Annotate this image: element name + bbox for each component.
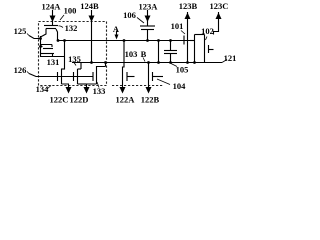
svg-text:122A: 122A: [116, 95, 136, 105]
leader 104: [157, 79, 170, 85]
svg-text:135: 135: [68, 54, 81, 64]
svg-text:123C: 123C: [210, 1, 229, 11]
transistor 131 (mid left, dual gate): [41, 45, 52, 48]
leader 135: [74, 63, 76, 66]
svg-text:126: 126: [14, 65, 27, 75]
leader 102: [206, 37, 208, 41]
svg-text:102: 102: [201, 26, 214, 36]
leader 105: [171, 64, 177, 67]
svg-text:101: 101: [171, 21, 184, 31]
node label A with arrow: [116, 31, 118, 37]
svg-text:105: 105: [176, 65, 189, 75]
svg-text:123A: 123A: [139, 2, 159, 12]
transistor 132 (top of left block): [44, 25, 58, 27]
leader 100: [60, 15, 64, 20]
node dot rail A / wire to B rail: [157, 39, 160, 42]
node A rail: [58, 40, 195, 42]
leader 132: [59, 26, 64, 28]
node dot 104 drain on B rail: [147, 61, 150, 64]
transistor 104: [148, 63, 150, 85]
terminal 122B arrow: [146, 87, 152, 94]
terminal 123B arrow (output, head up): [187, 12, 189, 63]
svg-text:133: 133: [93, 86, 106, 96]
terminal 124B arrow: [91, 10, 93, 63]
leader 125 tail: [27, 34, 29, 36]
node dot 124B on B rail: [90, 61, 93, 64]
leader B: [143, 58, 145, 62]
leader 134: [47, 86, 51, 90]
svg-text:122B: 122B: [141, 95, 160, 105]
node dot rail A / backgate branch: [63, 39, 66, 42]
transistor 106 (element under 123A): [140, 25, 155, 27]
node dot wire A on B rail: [157, 61, 160, 64]
svg-text:125: 125: [14, 26, 27, 36]
wire 132 source to 131: [40, 36, 42, 57]
node dot 132 drain on rail A: [57, 39, 60, 42]
terminal 122C arrow: [66, 87, 72, 94]
transistor 131a (bottom left): [57, 72, 59, 81]
svg-text:B: B: [141, 49, 147, 59]
node dot capacitor on B rail: [169, 61, 172, 64]
svg-text:124A: 124A: [42, 2, 62, 12]
terminal 122A arrow: [120, 87, 126, 94]
node dot 133 backgate on B rail: [104, 61, 107, 64]
node dot 123B/101 on B rail: [186, 61, 189, 64]
svg-text:122D: 122D: [70, 95, 89, 105]
wire rail A down to transistor 131b drain: [61, 41, 65, 70]
transistor 102: [204, 35, 206, 43]
node dot 125 junction: [39, 37, 42, 40]
node dot 101 wire on B rail: [193, 61, 196, 64]
wire 101 drain to 102 drain: [194, 35, 196, 63]
terminal 123A arrow: [147, 10, 149, 26]
wire node A to B rail: [158, 41, 160, 63]
transistor 133 (bottom right of left block): [92, 72, 94, 81]
leader 106: [137, 18, 144, 24]
tick to 131 gate bar: [41, 46, 43, 48]
svg-text:103: 103: [125, 49, 138, 59]
leader 101: [181, 31, 185, 35]
capacitor 105: [170, 41, 172, 51]
dashed box 100 (left circuit block): [39, 22, 107, 86]
leader 121: [222, 60, 227, 63]
svg-text:121: 121: [224, 53, 237, 63]
svg-text:122C: 122C: [50, 95, 69, 105]
input 126 wire / gate line: [29, 74, 93, 77]
node dot 131 junction: [39, 45, 42, 48]
terminal 124A arrow: [52, 10, 54, 26]
svg-text:106: 106: [123, 10, 136, 20]
transistor 101: [183, 36, 185, 45]
dashed bottom edge of right circuit block 106: [112, 85, 163, 87]
node dot rail A / 106 line: [146, 39, 149, 42]
node dot rail A / capacitor branch: [169, 39, 172, 42]
node B rail / wiring 121: [72, 62, 222, 64]
leader 126 tail: [27, 72, 29, 74]
transistor 131b (bottom middle): [73, 72, 75, 81]
transistor 103 (bottom of right block): [123, 41, 125, 85]
svg-text:A: A: [113, 24, 120, 34]
terminal 123C arrow (output, head up): [214, 12, 219, 35]
leader 133: [97, 82, 99, 88]
svg-text:131: 131: [47, 57, 60, 67]
svg-text:132: 132: [65, 23, 78, 33]
input 125 wire: [29, 36, 41, 39]
node dot rail A to transistor 103: [123, 39, 126, 42]
svg-text:124B: 124B: [80, 1, 99, 11]
svg-text:134: 134: [36, 84, 50, 94]
svg-text:123B: 123B: [179, 1, 198, 11]
svg-text:104: 104: [173, 81, 187, 91]
terminal 122D arrow: [84, 87, 90, 94]
svg-text:100: 100: [64, 6, 77, 16]
